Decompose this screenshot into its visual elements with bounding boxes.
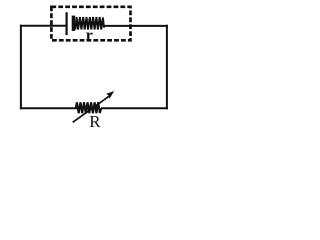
arrow shaft through R bbox=[73, 96, 110, 122]
arrow head bbox=[106, 91, 114, 99]
dashed enclosure box around battery bbox=[51, 7, 130, 41]
wire: outer circuit loop bbox=[20, 25, 168, 109]
battery cell short thick plate bbox=[72, 16, 75, 31]
wire left side bbox=[20, 25, 22, 109]
wire top-left segment to battery bbox=[20, 25, 67, 27]
resistor R zigzag bbox=[76, 102, 101, 113]
svg-text:R: R bbox=[89, 112, 101, 131]
resistor r coil zigzag bbox=[75, 17, 104, 30]
wire bottom-left segment bbox=[20, 107, 77, 109]
wire bottom-right segment bbox=[101, 107, 168, 109]
battery cell long plate bbox=[65, 12, 67, 35]
wire top-right segment from resistor r to corner bbox=[104, 25, 168, 27]
svg-text:r: r bbox=[86, 27, 93, 44]
wire right side bbox=[166, 25, 168, 109]
